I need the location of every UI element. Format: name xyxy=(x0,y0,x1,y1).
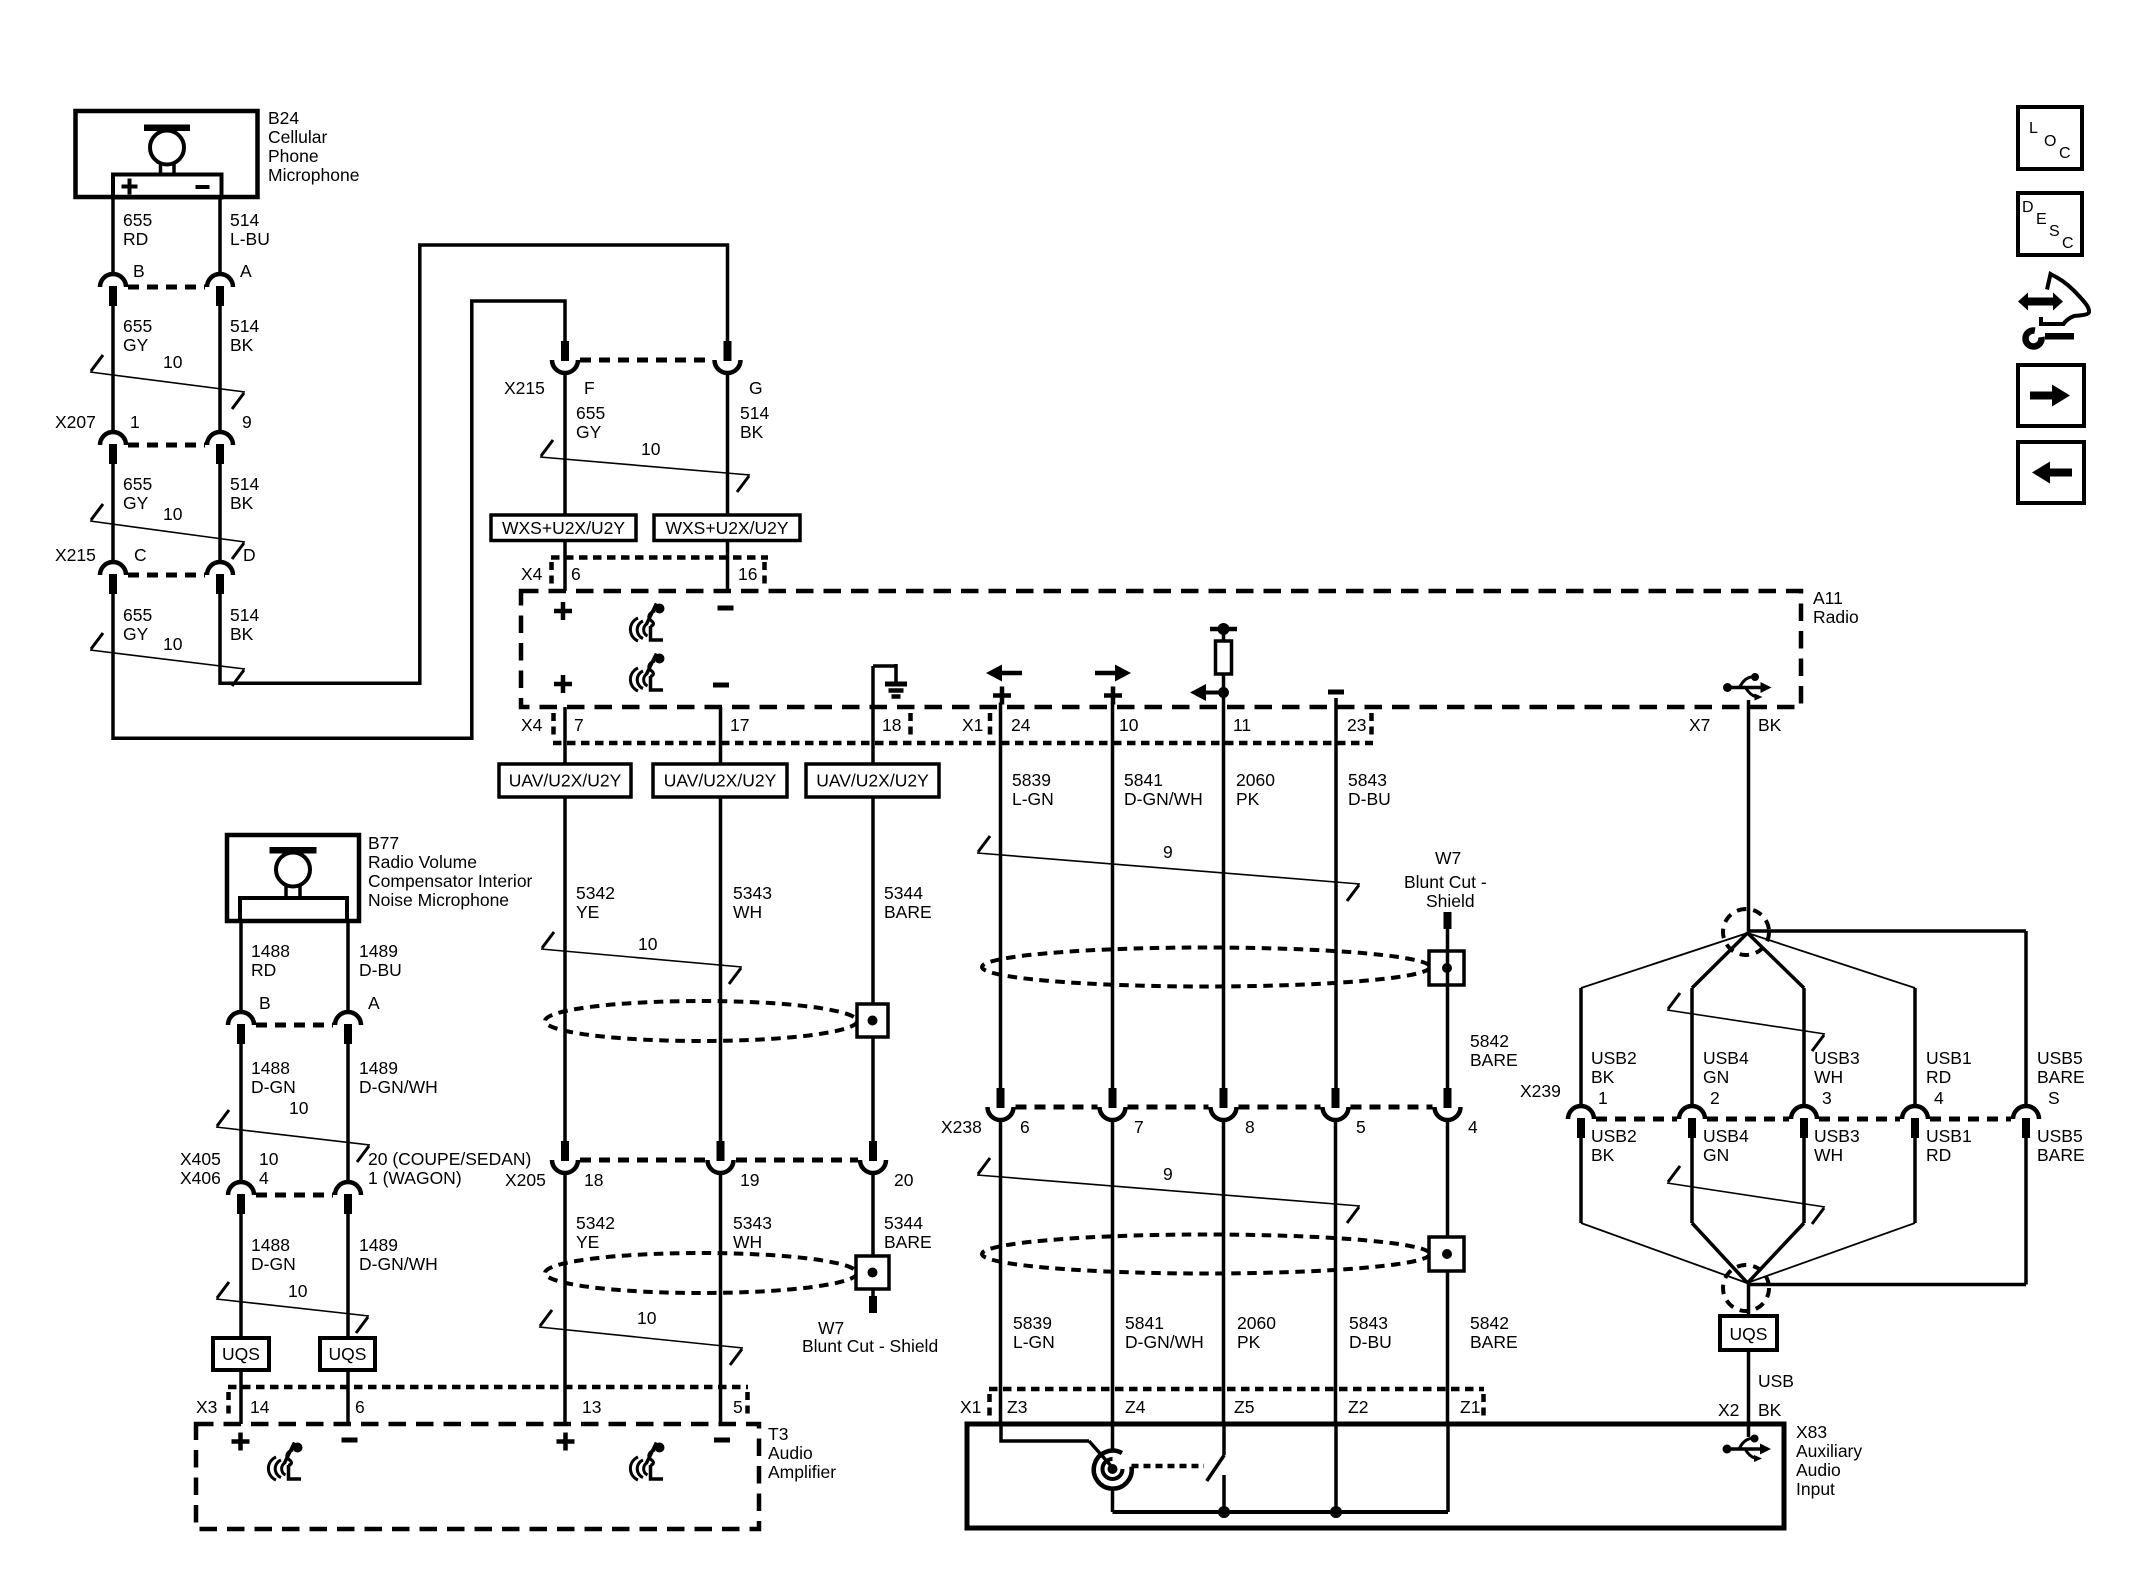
svg-text:UQS: UQS xyxy=(329,1344,367,1364)
svg-text:L-GN: L-GN xyxy=(1013,1332,1055,1352)
svg-text:9: 9 xyxy=(242,412,252,432)
svg-text:Microphone: Microphone xyxy=(268,165,359,185)
svg-text:5343: 5343 xyxy=(733,883,772,903)
svg-text:1489: 1489 xyxy=(359,1235,398,1255)
svg-text:X238: X238 xyxy=(941,1117,982,1137)
svg-text:2060: 2060 xyxy=(1237,1313,1276,1333)
svg-text:L-GN: L-GN xyxy=(1012,789,1054,809)
svg-text:F: F xyxy=(584,378,595,398)
svg-text:Z3: Z3 xyxy=(1007,1397,1027,1417)
svg-text:13: 13 xyxy=(582,1397,601,1417)
svg-text:PK: PK xyxy=(1237,1332,1261,1352)
svg-text:10: 10 xyxy=(259,1149,279,1169)
svg-text:D-GN/WH: D-GN/WH xyxy=(1125,1332,1204,1352)
svg-text:PK: PK xyxy=(1236,789,1260,809)
svg-text:514: 514 xyxy=(230,605,259,625)
svg-text:5343: 5343 xyxy=(733,1213,772,1233)
svg-text:Z2: Z2 xyxy=(1348,1397,1368,1417)
svg-text:USB4: USB4 xyxy=(1703,1126,1749,1146)
svg-text:USB: USB xyxy=(1758,1371,1794,1391)
svg-text:A: A xyxy=(240,261,252,281)
svg-text:X406: X406 xyxy=(180,1168,221,1188)
svg-text:Z5: Z5 xyxy=(1234,1397,1254,1417)
svg-text:Audio: Audio xyxy=(1796,1460,1841,1480)
svg-text:A11: A11 xyxy=(1813,588,1843,608)
svg-text:2060: 2060 xyxy=(1236,770,1275,790)
svg-text:USB3: USB3 xyxy=(1814,1048,1860,1068)
svg-text:3: 3 xyxy=(1822,1088,1832,1108)
svg-text:RD: RD xyxy=(123,229,148,249)
svg-text:10: 10 xyxy=(163,634,183,654)
svg-text:RD: RD xyxy=(1926,1067,1951,1087)
svg-text:X3: X3 xyxy=(196,1397,217,1417)
svg-text:X4: X4 xyxy=(521,564,543,584)
svg-text:BK: BK xyxy=(740,422,764,442)
svg-text:2: 2 xyxy=(1710,1088,1720,1108)
svg-text:4: 4 xyxy=(1468,1117,1478,1137)
svg-text:D: D xyxy=(2022,199,2034,216)
svg-text:X1: X1 xyxy=(960,1397,981,1417)
svg-text:14: 14 xyxy=(250,1397,270,1417)
svg-text:4: 4 xyxy=(259,1168,269,1188)
svg-text:Input: Input xyxy=(1796,1479,1835,1499)
svg-text:GY: GY xyxy=(576,422,602,442)
svg-text:USB2: USB2 xyxy=(1591,1048,1637,1068)
svg-text:UAV/U2X/U2Y: UAV/U2X/U2Y xyxy=(509,771,622,791)
svg-text:19: 19 xyxy=(740,1170,759,1190)
svg-text:5: 5 xyxy=(733,1397,743,1417)
svg-text:1488: 1488 xyxy=(251,1058,290,1078)
svg-text:17: 17 xyxy=(730,715,749,735)
svg-text:D-GN/WH: D-GN/WH xyxy=(1124,789,1203,809)
svg-text:7: 7 xyxy=(574,715,584,735)
svg-text:18: 18 xyxy=(882,715,901,735)
svg-text:Blunt Cut - Shield: Blunt Cut - Shield xyxy=(802,1336,938,1356)
svg-text:Z4: Z4 xyxy=(1125,1397,1146,1417)
svg-text:5843: 5843 xyxy=(1349,1313,1388,1333)
svg-text:10: 10 xyxy=(288,1281,308,1301)
svg-text:A: A xyxy=(368,993,380,1013)
svg-text:WH: WH xyxy=(733,1232,762,1252)
svg-text:1: 1 xyxy=(1598,1088,1608,1108)
svg-text:D-BU: D-BU xyxy=(1348,789,1391,809)
svg-text:L-BU: L-BU xyxy=(230,229,270,249)
svg-text:23: 23 xyxy=(1347,715,1366,735)
svg-text:10: 10 xyxy=(637,1308,657,1328)
svg-text:X7: X7 xyxy=(1689,715,1710,735)
svg-text:WH: WH xyxy=(1814,1067,1843,1087)
svg-text:10: 10 xyxy=(289,1098,309,1118)
svg-text:YE: YE xyxy=(576,1232,599,1252)
svg-text:C: C xyxy=(2062,235,2074,252)
svg-text:C: C xyxy=(2059,145,2071,162)
svg-text:USB5: USB5 xyxy=(2037,1126,2083,1146)
svg-text:1488: 1488 xyxy=(251,1235,290,1255)
svg-text:655: 655 xyxy=(123,474,152,494)
svg-text:Z1: Z1 xyxy=(1460,1397,1480,1417)
svg-text:X207: X207 xyxy=(55,412,96,432)
svg-text:D-GN/WH: D-GN/WH xyxy=(359,1254,438,1274)
svg-text:1489: 1489 xyxy=(359,941,398,961)
svg-text:24: 24 xyxy=(1011,715,1031,735)
svg-text:X205: X205 xyxy=(505,1170,546,1190)
svg-text:5839: 5839 xyxy=(1013,1313,1052,1333)
svg-text:5839: 5839 xyxy=(1012,770,1051,790)
svg-text:D: D xyxy=(243,545,256,565)
svg-text:BARE: BARE xyxy=(1470,1050,1518,1070)
svg-text:Phone: Phone xyxy=(268,146,319,166)
svg-text:655: 655 xyxy=(123,316,152,336)
svg-text:BK: BK xyxy=(1758,1400,1782,1420)
svg-text:GY: GY xyxy=(123,624,149,644)
svg-text:Compensator Interior: Compensator Interior xyxy=(368,871,533,891)
svg-text:USB4: USB4 xyxy=(1703,1048,1749,1068)
svg-text:WXS+U2X/U2Y: WXS+U2X/U2Y xyxy=(502,518,625,538)
svg-text:5841: 5841 xyxy=(1124,770,1163,790)
svg-text:16: 16 xyxy=(738,564,757,584)
svg-text:BK: BK xyxy=(1758,715,1782,735)
svg-text:Shield: Shield xyxy=(1426,891,1475,911)
svg-text:10: 10 xyxy=(641,439,661,459)
svg-text:18: 18 xyxy=(584,1170,603,1190)
svg-text:1489: 1489 xyxy=(359,1058,398,1078)
svg-text:G: G xyxy=(749,378,763,398)
svg-text:RD: RD xyxy=(1926,1145,1951,1165)
svg-text:20: 20 xyxy=(894,1170,914,1190)
svg-text:BARE: BARE xyxy=(884,902,932,922)
svg-text:8: 8 xyxy=(1245,1117,1255,1137)
svg-text:7: 7 xyxy=(1134,1117,1144,1137)
svg-text:9: 9 xyxy=(1163,842,1173,862)
svg-text:USB1: USB1 xyxy=(1926,1126,1972,1146)
svg-text:655: 655 xyxy=(576,403,605,423)
svg-text:9: 9 xyxy=(1163,1164,1173,1184)
svg-text:D-BU: D-BU xyxy=(359,960,402,980)
svg-text:5842: 5842 xyxy=(1470,1313,1509,1333)
svg-text:1: 1 xyxy=(130,412,140,432)
svg-text:5344: 5344 xyxy=(884,883,923,903)
svg-text:10: 10 xyxy=(638,934,658,954)
svg-text:X1: X1 xyxy=(962,715,983,735)
svg-text:X405: X405 xyxy=(180,1149,221,1169)
svg-text:10: 10 xyxy=(1119,715,1139,735)
svg-text:YE: YE xyxy=(576,902,599,922)
svg-text:T3: T3 xyxy=(768,1424,788,1444)
svg-text:X2: X2 xyxy=(1718,1400,1739,1420)
svg-text:514: 514 xyxy=(230,210,259,230)
svg-text:UAV/U2X/U2Y: UAV/U2X/U2Y xyxy=(664,771,777,791)
svg-text:WH: WH xyxy=(1814,1145,1843,1165)
svg-text:BK: BK xyxy=(230,624,254,644)
svg-text:Radio: Radio xyxy=(1813,607,1859,627)
svg-text:D-GN: D-GN xyxy=(251,1254,296,1274)
svg-text:GN: GN xyxy=(1703,1145,1729,1165)
svg-text:Audio: Audio xyxy=(768,1443,813,1463)
svg-text:W7: W7 xyxy=(818,1318,844,1338)
svg-text:5: 5 xyxy=(1356,1117,1366,1137)
svg-text:BK: BK xyxy=(230,493,254,513)
svg-text:L: L xyxy=(2029,120,2038,137)
svg-text:GY: GY xyxy=(123,493,149,513)
svg-text:514: 514 xyxy=(230,474,259,494)
svg-text:S: S xyxy=(2048,1088,2060,1108)
svg-text:10: 10 xyxy=(163,352,183,372)
svg-text:BARE: BARE xyxy=(2037,1067,2085,1087)
svg-text:655: 655 xyxy=(123,605,152,625)
svg-text:RD: RD xyxy=(251,960,276,980)
svg-text:6: 6 xyxy=(355,1397,365,1417)
svg-text:B77: B77 xyxy=(368,833,399,853)
svg-text:USB1: USB1 xyxy=(1926,1048,1972,1068)
svg-text:BARE: BARE xyxy=(1470,1332,1518,1352)
svg-text:BARE: BARE xyxy=(2037,1145,2085,1165)
svg-text:X4: X4 xyxy=(521,715,543,735)
svg-text:X215: X215 xyxy=(504,378,545,398)
svg-text:GY: GY xyxy=(123,335,149,355)
svg-text:Noise Microphone: Noise Microphone xyxy=(368,890,509,910)
svg-text:D-GN: D-GN xyxy=(251,1077,296,1097)
svg-text:Cellular: Cellular xyxy=(268,127,327,147)
svg-text:Auxiliary: Auxiliary xyxy=(1796,1441,1862,1461)
svg-text:W7: W7 xyxy=(1435,848,1461,868)
svg-text:BK: BK xyxy=(230,335,254,355)
svg-text:B24: B24 xyxy=(268,108,299,128)
svg-text:514: 514 xyxy=(740,403,769,423)
svg-text:1488: 1488 xyxy=(251,941,290,961)
svg-text:C: C xyxy=(134,545,147,565)
svg-text:11: 11 xyxy=(1233,715,1251,735)
svg-text:6: 6 xyxy=(571,564,581,584)
svg-text:GN: GN xyxy=(1703,1067,1729,1087)
svg-text:Blunt Cut -: Blunt Cut - xyxy=(1404,872,1487,892)
svg-text:5841: 5841 xyxy=(1125,1313,1164,1333)
svg-text:O: O xyxy=(2044,133,2056,150)
svg-text:Radio Volume: Radio Volume xyxy=(368,852,477,872)
svg-text:20 (COUPE/SEDAN): 20 (COUPE/SEDAN) xyxy=(368,1149,531,1169)
svg-text:6: 6 xyxy=(1020,1117,1030,1137)
svg-text:5342: 5342 xyxy=(576,1213,615,1233)
svg-text:BK: BK xyxy=(1591,1067,1615,1087)
svg-text:655: 655 xyxy=(123,210,152,230)
svg-text:5842: 5842 xyxy=(1470,1031,1509,1051)
svg-text:5342: 5342 xyxy=(576,883,615,903)
svg-text:1 (WAGON): 1 (WAGON) xyxy=(368,1168,462,1188)
svg-text:BARE: BARE xyxy=(884,1232,932,1252)
svg-text:WH: WH xyxy=(733,902,762,922)
svg-text:S: S xyxy=(2049,223,2060,240)
svg-text:514: 514 xyxy=(230,316,259,336)
svg-text:X239: X239 xyxy=(1520,1081,1561,1101)
svg-text:4: 4 xyxy=(1934,1088,1944,1108)
svg-text:X83: X83 xyxy=(1796,1422,1827,1442)
svg-text:USB2: USB2 xyxy=(1591,1126,1637,1146)
svg-text:USB5: USB5 xyxy=(2037,1048,2083,1068)
svg-text:BK: BK xyxy=(1591,1145,1615,1165)
svg-text:B: B xyxy=(133,261,145,281)
svg-text:10: 10 xyxy=(163,504,183,524)
svg-text:D-GN/WH: D-GN/WH xyxy=(359,1077,438,1097)
svg-text:UQS: UQS xyxy=(1730,1324,1768,1344)
svg-text:5843: 5843 xyxy=(1348,770,1387,790)
svg-text:UAV/U2X/U2Y: UAV/U2X/U2Y xyxy=(816,771,929,791)
svg-text:X215: X215 xyxy=(55,545,96,565)
svg-text:Amplifier: Amplifier xyxy=(768,1462,836,1482)
svg-text:UQS: UQS xyxy=(222,1344,260,1364)
svg-text:USB3: USB3 xyxy=(1814,1126,1860,1146)
svg-text:B: B xyxy=(259,993,271,1013)
svg-text:E: E xyxy=(2036,211,2047,228)
svg-text:WXS+U2X/U2Y: WXS+U2X/U2Y xyxy=(665,518,788,538)
svg-text:D-BU: D-BU xyxy=(1349,1332,1392,1352)
svg-text:5344: 5344 xyxy=(884,1213,923,1233)
